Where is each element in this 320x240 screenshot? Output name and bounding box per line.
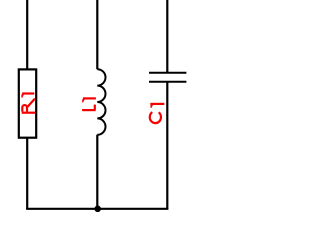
wire top of C1 branch [166, 0, 168, 73]
wire bottom of C1 branch [166, 82, 168, 209]
label L1 [82, 98, 96, 110]
capacitor C1 plate bottom [149, 81, 186, 83]
junction dot [94, 206, 101, 213]
resistor R1 [19, 69, 36, 137]
wire bottom of R1 branch [26, 138, 28, 209]
wire top of L1 branch [96, 0, 98, 69]
bottom wire rail [26, 208, 168, 210]
label C1 [150, 104, 165, 123]
label R1 [22, 94, 35, 113]
wire bottom of L1 branch [96, 135, 98, 209]
inductor L1 [97, 69, 105, 135]
capacitor C1 plate top [149, 72, 186, 74]
wire top of R1 branch [26, 0, 28, 70]
